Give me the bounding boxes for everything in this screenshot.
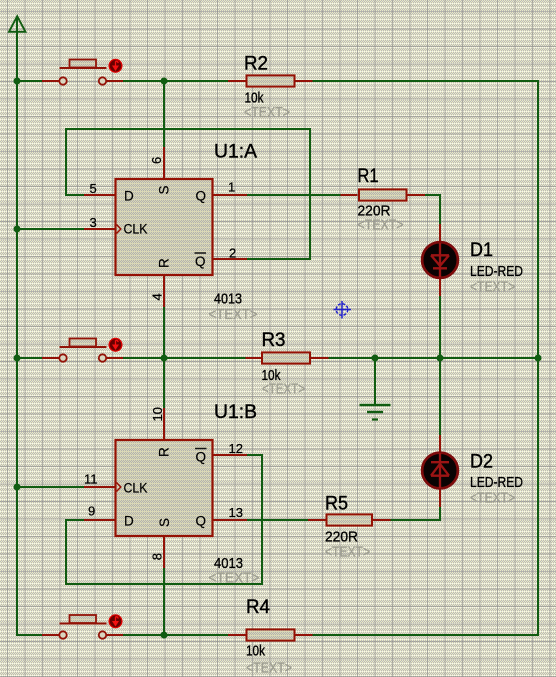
- svg-text:10k: 10k: [246, 643, 265, 660]
- svg-text:LED-RED: LED-RED: [470, 263, 523, 280]
- wire U1:A feedback Qbar to D: [66, 129, 310, 259]
- svg-text:12: 12: [229, 441, 243, 456]
- svg-text:S: S: [157, 185, 172, 194]
- svg-text:D2: D2: [470, 452, 493, 473]
- wire S8b to row3 vertical x=164: [163, 568, 165, 635]
- D2 top stub: [439, 435, 441, 453]
- svg-text:D: D: [124, 514, 134, 529]
- svg-text:<TEXT>: <TEXT>: [358, 217, 404, 234]
- wire row3 R4 to right rail: [312, 634, 539, 636]
- wire row3 left segment: [16, 634, 42, 636]
- resistor R3: [246, 352, 329, 363]
- svg-text:R: R: [157, 447, 172, 457]
- svg-text:Q: Q: [196, 450, 207, 465]
- wire row3 button3 to R4: [123, 634, 228, 636]
- svg-text:U1:B: U1:B: [214, 402, 257, 423]
- wire CLK A from rail: [16, 228, 84, 230]
- wire row1 R2 to right rail: [312, 80, 539, 82]
- svg-text:Q: Q: [196, 514, 207, 529]
- wire right rail x=538: [537, 81, 539, 636]
- svg-text:<TEXT>: <TEXT>: [246, 660, 292, 677]
- svg-text:9: 9: [88, 504, 95, 519]
- svg-text:<TEXT>: <TEXT>: [209, 306, 258, 323]
- wire row1 button1 to R2: [123, 80, 228, 82]
- resistor R2: [228, 75, 313, 86]
- svg-text:5: 5: [90, 181, 97, 196]
- svg-text:<TEXT>: <TEXT>: [209, 570, 260, 587]
- flip-flop U1:A: [116, 179, 213, 275]
- svg-text:R4: R4: [246, 597, 270, 618]
- wire R1 to LED D1: [425, 195, 440, 224]
- svg-text:Q: Q: [196, 189, 207, 204]
- svg-text:13: 13: [229, 505, 243, 520]
- wire D2 to R5: [390, 507, 440, 520]
- wire U1:B feedback Qbar to D: [66, 455, 262, 584]
- svg-text:R1: R1: [358, 166, 379, 187]
- pin 8 S stub U1:B: [163, 537, 165, 568]
- button 2 actuate icon: [109, 338, 122, 351]
- pin 13 Q stub U1:B: [213, 519, 247, 521]
- svg-text:4013: 4013: [214, 291, 242, 308]
- node junction dots: [14, 78, 542, 639]
- svg-text:<TEXT>: <TEXT>: [470, 279, 515, 296]
- svg-text:CLK: CLK: [124, 481, 148, 496]
- CLK triangle U1:B: [117, 483, 121, 492]
- svg-text:3: 3: [90, 215, 97, 230]
- wire Q1 to R1: [247, 194, 341, 196]
- svg-text:D: D: [124, 189, 134, 204]
- button 3 actuate icon: [109, 615, 122, 628]
- svg-text:R3: R3: [262, 330, 286, 351]
- wire R4a to R10b vertical x=164: [163, 307, 165, 408]
- svg-text:8: 8: [150, 553, 165, 560]
- pin 12 Qbar stub U1:B: [213, 454, 247, 456]
- svg-text:D1: D1: [470, 240, 493, 261]
- svg-text:LED-RED: LED-RED: [470, 474, 523, 491]
- svg-text:CLK: CLK: [124, 222, 148, 237]
- resistor R4: [228, 629, 313, 640]
- flip-flop U1:B: [116, 440, 213, 536]
- svg-text:6: 6: [149, 157, 164, 164]
- svg-text:11: 11: [84, 472, 98, 487]
- power symbol top: [9, 16, 26, 32]
- svg-text:Q: Q: [195, 254, 206, 269]
- pin 9 D stub U1:B: [84, 519, 115, 521]
- LED D1: [422, 242, 458, 278]
- svg-text:R5: R5: [325, 494, 348, 515]
- wire row2 button2 to R3: [123, 357, 246, 359]
- D1 bottom stub: [439, 277, 441, 296]
- button 1 actuate icon: [109, 59, 122, 72]
- wire D1 to row2 to D2: [439, 296, 441, 435]
- D2 bottom stub: [439, 488, 441, 507]
- pin 1 Q stub U1:A: [213, 194, 247, 196]
- svg-text:<TEXT>: <TEXT>: [244, 104, 290, 121]
- pin 11 CLK stub U1:B: [84, 486, 115, 488]
- svg-text:U1:A: U1:A: [214, 142, 257, 163]
- resistor R5: [308, 514, 391, 525]
- LED D2: [422, 453, 458, 489]
- wire CLK B from rail: [16, 486, 84, 488]
- wire row1 left segment: [16, 80, 42, 82]
- svg-text:<TEXT>: <TEXT>: [470, 490, 515, 507]
- ground: [360, 405, 391, 420]
- wire ground stem: [374, 358, 376, 404]
- push button 3: [42, 615, 123, 639]
- pin stubs dark red: [84, 147, 440, 568]
- wire R5 to Q13: [247, 519, 308, 521]
- svg-text:S: S: [157, 518, 172, 527]
- wire row2 left segment: [16, 357, 42, 359]
- pin 5 D stub U1:A: [84, 194, 115, 196]
- wire row2 R3 to right rail: [328, 357, 538, 359]
- svg-text:4: 4: [150, 293, 165, 300]
- svg-text:<TEXT>: <TEXT>: [325, 544, 370, 561]
- pin 2 Qbar stub U1:A: [213, 258, 247, 260]
- pin 4 R stub U1:A: [163, 276, 165, 307]
- wire left power rail x=17: [16, 17, 18, 636]
- origin crosshair marker: [334, 301, 352, 319]
- svg-text:2: 2: [229, 246, 236, 261]
- resistor R1: [341, 189, 426, 200]
- push button 1: [42, 59, 123, 84]
- svg-text:R2: R2: [244, 54, 268, 75]
- svg-text:1: 1: [228, 180, 235, 195]
- D1 top stub: [439, 224, 441, 243]
- pin 3 CLK stub U1:A: [84, 228, 115, 230]
- push button 2: [42, 338, 123, 361]
- CLK triangle U1:A: [117, 225, 121, 234]
- svg-text:10: 10: [150, 407, 165, 421]
- wire node S6 vertical: [163, 81, 165, 147]
- pin 6 S stub U1:A: [163, 147, 165, 178]
- svg-text:<TEXT>: <TEXT>: [262, 381, 305, 398]
- svg-text:R: R: [157, 258, 172, 268]
- pin 10 R stub U1:B: [163, 408, 165, 439]
